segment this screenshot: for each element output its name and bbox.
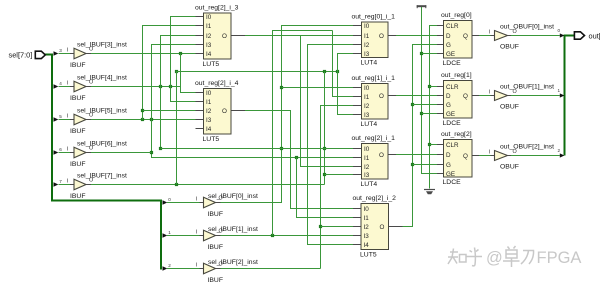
wire branch CLR out_reg[1] — [430, 86, 438, 88]
wire branch G out_reg[1] — [413, 104, 438, 106]
wire net sel_IBUF[4] row — [59, 86, 181, 88]
buffer sel_IBUF[2]_inst — [163, 259, 258, 283]
power vcc symbol — [417, 5, 427, 8]
svg-text:sel_IBUF[0]_inst: sel_IBUF[0]_inst — [208, 193, 258, 200]
wire sel4 vertical x160 to i_3 I2 and y148 row — [161, 36, 196, 149]
wire net sel_IBUF[0] row and vertical x281 to reg0_i_1 I0 — [221, 26, 354, 203]
svg-text:O: O — [222, 108, 227, 115]
svg-text:out_OBUF[1]_inst: out_OBUF[1]_inst — [500, 84, 554, 91]
wire net sel_IBUF[5] row to i_4 I3 — [59, 119, 196, 121]
svg-text:sel_IBUF[2]_inst: sel_IBUF[2]_inst — [208, 259, 258, 266]
LUT4 out_reg[0]_i_1 — [352, 13, 397, 66]
svg-text:I4: I4 — [206, 51, 212, 58]
buffer out_OBUF[1]_inst — [489, 84, 554, 111]
buffer out_OBUF[0]_inst — [489, 24, 554, 51]
svg-text:out_reg[1]_i_1: out_reg[1]_i_1 — [352, 75, 396, 82]
svg-text:I3: I3 — [206, 117, 212, 124]
svg-text:I0: I0 — [206, 14, 212, 21]
wire net sel_IBUF[2] row — [221, 268, 321, 270]
svg-text:1: 1 — [558, 88, 561, 93]
wire sel1 to reg1_i_1 I1 via x332 — [333, 31, 354, 97]
svg-text:GE: GE — [446, 51, 455, 58]
wire sel6 branch to i_2 I1 — [297, 158, 354, 218]
svg-text:out_reg[2]_i_2: out_reg[2]_i_2 — [353, 195, 397, 202]
svg-text:I3: I3 — [206, 42, 212, 49]
wire branch GE out_reg[1] — [422, 113, 438, 115]
wire D path reg0 — [396, 35, 437, 37]
svg-text:Q: Q — [463, 93, 468, 100]
svg-text:I3: I3 — [364, 51, 370, 58]
svg-text:I: I — [196, 197, 198, 203]
svg-text:O: O — [379, 33, 384, 40]
wire net i_4 O to i_2 I0 — [245, 111, 354, 209]
wire net const1 to GE pins — [422, 7, 438, 174]
svg-text:I: I — [67, 147, 69, 153]
wire sel5 vertical x151 to i_3 I3 down to y157 — [152, 45, 354, 158]
svg-text:O: O — [379, 93, 384, 100]
LDCE out_reg[1] — [437, 72, 479, 127]
node junction x160 y148 — [159, 147, 162, 150]
wire Q0 to OBUF — [479, 35, 491, 37]
node junction GE0 — [420, 52, 423, 55]
node junction x281 y87 — [280, 86, 283, 89]
svg-text:I0: I0 — [206, 90, 212, 97]
wire sel2 branch to i_2 I2 — [321, 226, 354, 228]
svg-text:D: D — [446, 152, 451, 159]
svg-text:out_reg[2]: out_reg[2] — [441, 131, 472, 138]
svg-text:I: I — [67, 179, 69, 185]
port sel[7:0] — [9, 50, 46, 59]
wire Q2 to OBUF — [479, 155, 491, 157]
svg-text:0: 0 — [558, 28, 561, 33]
wire sel port to bus — [45, 54, 53, 56]
node junction x324 y174 — [323, 173, 326, 176]
svg-text:I: I — [67, 48, 69, 54]
svg-text:out_reg[0]: out_reg[0] — [441, 12, 472, 19]
wire sel5 branch to i_4 I2 — [143, 110, 196, 112]
svg-text:CLR: CLR — [446, 23, 459, 30]
svg-text:out_reg[2]_i_1: out_reg[2]_i_1 — [352, 135, 396, 142]
buffer sel_IBUF[1]_inst — [163, 226, 258, 251]
wire OBUF1 to out bus — [511, 95, 560, 97]
buffer sel_IBUF[3]_inst — [54, 42, 127, 69]
node junction CLR1 — [428, 85, 431, 88]
wire net sel_IBUF[3] row — [59, 53, 196, 55]
svg-text:I: I — [196, 230, 198, 236]
svg-text:sel_IBUF[6]_inst: sel_IBUF[6]_inst — [77, 141, 127, 148]
buffer sel_IBUF[0]_inst — [163, 193, 258, 218]
svg-text:IBUF: IBUF — [70, 161, 85, 168]
svg-text:G: G — [446, 162, 451, 169]
LUT5 out_reg[2]_i_3 — [195, 4, 245, 67]
node junction sel4 b — [169, 85, 172, 88]
svg-text:sel_IBUF[4]_inst: sel_IBUF[4]_inst — [77, 75, 127, 82]
LDCE out_reg[2] — [437, 131, 479, 186]
svg-text:I2: I2 — [364, 164, 370, 171]
svg-text:I3: I3 — [364, 233, 370, 240]
buffer sel_IBUF[5]_inst — [54, 108, 127, 135]
node junction sel6 x296 — [295, 156, 298, 159]
wire branch x324 to reg2_i_1 I3 — [325, 174, 354, 176]
wire branch G out_reg[2] — [413, 164, 438, 166]
svg-text:I2: I2 — [206, 33, 212, 40]
svg-text:I1: I1 — [364, 215, 370, 222]
svg-text:I3: I3 — [364, 172, 370, 179]
wire sel3 branch to i_4 I0 — [181, 54, 196, 93]
svg-text:O: O — [379, 152, 384, 159]
wire D path reg1 — [396, 95, 437, 97]
svg-text:I0: I0 — [364, 146, 370, 153]
node junction sel5 b — [150, 118, 153, 121]
svg-text:LUT5: LUT5 — [203, 61, 220, 68]
svg-text:LUT4: LUT4 — [361, 59, 378, 66]
svg-text:I2: I2 — [206, 108, 212, 115]
svg-text:out_reg[0]_i_1: out_reg[0]_i_1 — [352, 13, 396, 20]
svg-text:I4: I4 — [364, 242, 370, 249]
node junction sel6 — [150, 151, 153, 154]
svg-text:IBUF: IBUF — [70, 193, 85, 200]
wire sel2 vertical x320 to reg1_i_1 I2 — [321, 106, 354, 269]
LUT4 out_reg[2]_i_1 — [352, 135, 397, 188]
svg-text:sel_IBUF[3]_inst: sel_IBUF[3]_inst — [77, 42, 127, 49]
wire net sel_IBUF[7] row — [59, 184, 325, 186]
node junction sel4 a — [159, 85, 162, 88]
wire Q1 to OBUF — [479, 95, 491, 97]
wire sel1 vertical x272 — [273, 31, 333, 236]
wire net i_2 O up to LDCE G pins — [402, 45, 437, 227]
node junction sel1 — [271, 234, 274, 237]
svg-text:LUT5: LUT5 — [360, 251, 377, 258]
svg-text:O: O — [380, 224, 385, 231]
buffer sel_IBUF[6]_inst — [54, 141, 127, 168]
svg-text:OBUF: OBUF — [500, 104, 519, 111]
svg-text:I: I — [196, 263, 198, 269]
svg-text:O: O — [222, 33, 227, 40]
svg-text:IBUF: IBUF — [208, 277, 223, 283]
svg-text:I: I — [67, 114, 69, 120]
svg-text:G: G — [446, 102, 451, 109]
ground symbol — [424, 190, 435, 195]
svg-text:I2: I2 — [364, 103, 370, 110]
LUT5 out_reg[2]_i_2 — [353, 195, 403, 258]
node junction GE1 — [420, 112, 423, 115]
node junction x320 y226 — [319, 225, 322, 228]
wire branch CLR out_reg[2] — [430, 144, 438, 146]
svg-text:LUT5: LUT5 — [203, 136, 220, 143]
wire net sel_IBUF[6] row — [59, 152, 152, 154]
svg-text:3: 3 — [59, 48, 62, 53]
svg-text:6: 6 — [59, 147, 62, 152]
buffer sel_IBUF[4]_inst — [54, 75, 127, 102]
svg-text:@: @ — [486, 249, 503, 267]
wire OBUF2 to out bus — [511, 155, 560, 157]
wire OBUF0 to out bus — [511, 35, 560, 37]
svg-text:Q: Q — [463, 33, 468, 40]
svg-text:5: 5 — [59, 114, 62, 119]
wire vertical x337 to reg0_i_1 I3 and reg1_i_1 I3 — [338, 54, 354, 115]
svg-text:IBUF: IBUF — [70, 62, 85, 69]
svg-text:out_reg[2]_i_4: out_reg[2]_i_4 — [195, 80, 239, 87]
svg-text:I2: I2 — [364, 224, 370, 231]
svg-text:I1: I1 — [364, 94, 370, 101]
wire sel4 vertical to i_3 I0 and i_4 I1 — [171, 17, 196, 102]
svg-text:I0: I0 — [364, 23, 370, 30]
wire branch to reg1_i_1 I0 — [282, 87, 354, 89]
svg-text:1: 1 — [168, 230, 171, 235]
svg-text:LDCE: LDCE — [443, 60, 462, 67]
wire vertical x324 — [324, 72, 326, 185]
svg-text:LDCE: LDCE — [443, 120, 462, 127]
node junction x324 y148 — [323, 147, 326, 150]
svg-text:D: D — [446, 33, 451, 40]
svg-text:7: 7 — [59, 179, 62, 184]
svg-text:sel_IBUF[5]_inst: sel_IBUF[5]_inst — [77, 108, 127, 115]
svg-text:I0: I0 — [364, 206, 370, 213]
svg-text:4: 4 — [59, 81, 62, 86]
svg-text:out[2:0]: out[2:0] — [589, 31, 600, 40]
wire i_3 O branch x300 to reg2_i_1 I2 — [301, 36, 354, 167]
wire net into reg0_i_1 I2 via x307 down to i_2 I4 — [308, 45, 354, 245]
svg-text:OBUF: OBUF — [500, 164, 519, 171]
svg-text:IBUF: IBUF — [208, 244, 223, 251]
wire net i_3 O to reg0_i_1 I1 — [245, 35, 354, 37]
svg-text:IBUF: IBUF — [208, 211, 223, 218]
svg-text:LUT4: LUT4 — [361, 181, 378, 188]
LDCE out_reg[0] — [437, 12, 479, 67]
node junction G2 — [411, 163, 414, 166]
node junction sel3 — [179, 52, 182, 55]
svg-text:CLR: CLR — [446, 84, 459, 91]
svg-text:GE: GE — [446, 111, 455, 118]
wire net sel_IBUF[1] row into i_2 I3 — [221, 235, 354, 237]
wire net const0 to CLR pins — [430, 26, 438, 189]
LUT5 out_reg[2]_i_4 — [195, 80, 245, 143]
svg-text:out_OBUF[2]_inst: out_OBUF[2]_inst — [500, 144, 554, 151]
wire out bus to port — [565, 35, 575, 37]
node junction CLR2 — [428, 143, 431, 146]
svg-text:IBUF: IBUF — [70, 128, 85, 135]
svg-text:I0: I0 — [364, 85, 370, 92]
wire sel7 vertical x176 and run y71 — [177, 72, 338, 185]
wire out bus vertical — [564, 35, 566, 156]
svg-text:I1: I1 — [206, 99, 212, 106]
port out[2:0] — [558, 28, 600, 157]
svg-text:sel_IBUF[1]_inst: sel_IBUF[1]_inst — [208, 226, 258, 233]
svg-text:I3: I3 — [364, 112, 370, 119]
node junction x142 y109 — [141, 109, 144, 112]
buffer sel_IBUF[7]_inst — [54, 173, 127, 200]
svg-text:OBUF: OBUF — [500, 44, 519, 51]
node junction y71 x176 — [175, 70, 178, 73]
svg-text:LUT4: LUT4 — [361, 121, 378, 128]
wire sel5 vertical x142 to i_3 I1 — [143, 26, 196, 120]
svg-text:sel[7:0]: sel[7:0] — [9, 50, 33, 59]
svg-text:I4: I4 — [206, 126, 212, 133]
node junction G1 — [411, 103, 414, 106]
buffer out_OBUF[2]_inst — [489, 144, 554, 171]
svg-text:out_OBUF[0]_inst: out_OBUF[0]_inst — [500, 24, 554, 31]
svg-text:I: I — [489, 89, 491, 95]
svg-text:I2: I2 — [364, 42, 370, 49]
svg-text:2: 2 — [168, 263, 171, 268]
node junction y71 x337 — [336, 70, 339, 73]
svg-text:0: 0 — [168, 197, 171, 202]
svg-text:I1: I1 — [364, 155, 370, 162]
svg-text:out_reg[1]: out_reg[1] — [441, 72, 472, 79]
svg-text:I1: I1 — [364, 33, 370, 40]
node junction sel5 a — [141, 118, 144, 121]
node junction y71 x324 — [323, 70, 326, 73]
wire branch GE out_reg[0] — [422, 53, 438, 55]
watermark zhihu @danDaoFPGA — [448, 246, 534, 267]
node junction x281 y148 — [280, 147, 283, 150]
svg-text:I: I — [489, 149, 491, 155]
svg-text:2: 2 — [558, 148, 561, 153]
svg-text:I: I — [489, 29, 491, 35]
wire D path reg2 — [396, 154, 437, 156]
svg-text:Q: Q — [463, 153, 468, 160]
svg-text:I1: I1 — [206, 23, 212, 30]
svg-text:CLR: CLR — [446, 142, 459, 149]
svg-text:out_reg[2]_i_3: out_reg[2]_i_3 — [195, 4, 239, 11]
svg-text:GE: GE — [446, 171, 455, 178]
wire sel bus vertical — [52, 54, 161, 270]
wire row y148 to reg2_i_1 I0 — [161, 148, 354, 150]
svg-text:I: I — [67, 81, 69, 87]
svg-text:IBUF: IBUF — [70, 95, 85, 102]
node junction sel7 x176 — [175, 183, 178, 186]
svg-text:sel_IBUF[7]_inst: sel_IBUF[7]_inst — [77, 173, 127, 180]
svg-text:D: D — [446, 93, 451, 100]
svg-text:G: G — [446, 42, 451, 49]
LUT4 out_reg[1]_i_1 — [352, 75, 397, 128]
svg-text:FPGA: FPGA — [537, 249, 582, 267]
svg-text:LDCE: LDCE — [443, 179, 462, 186]
